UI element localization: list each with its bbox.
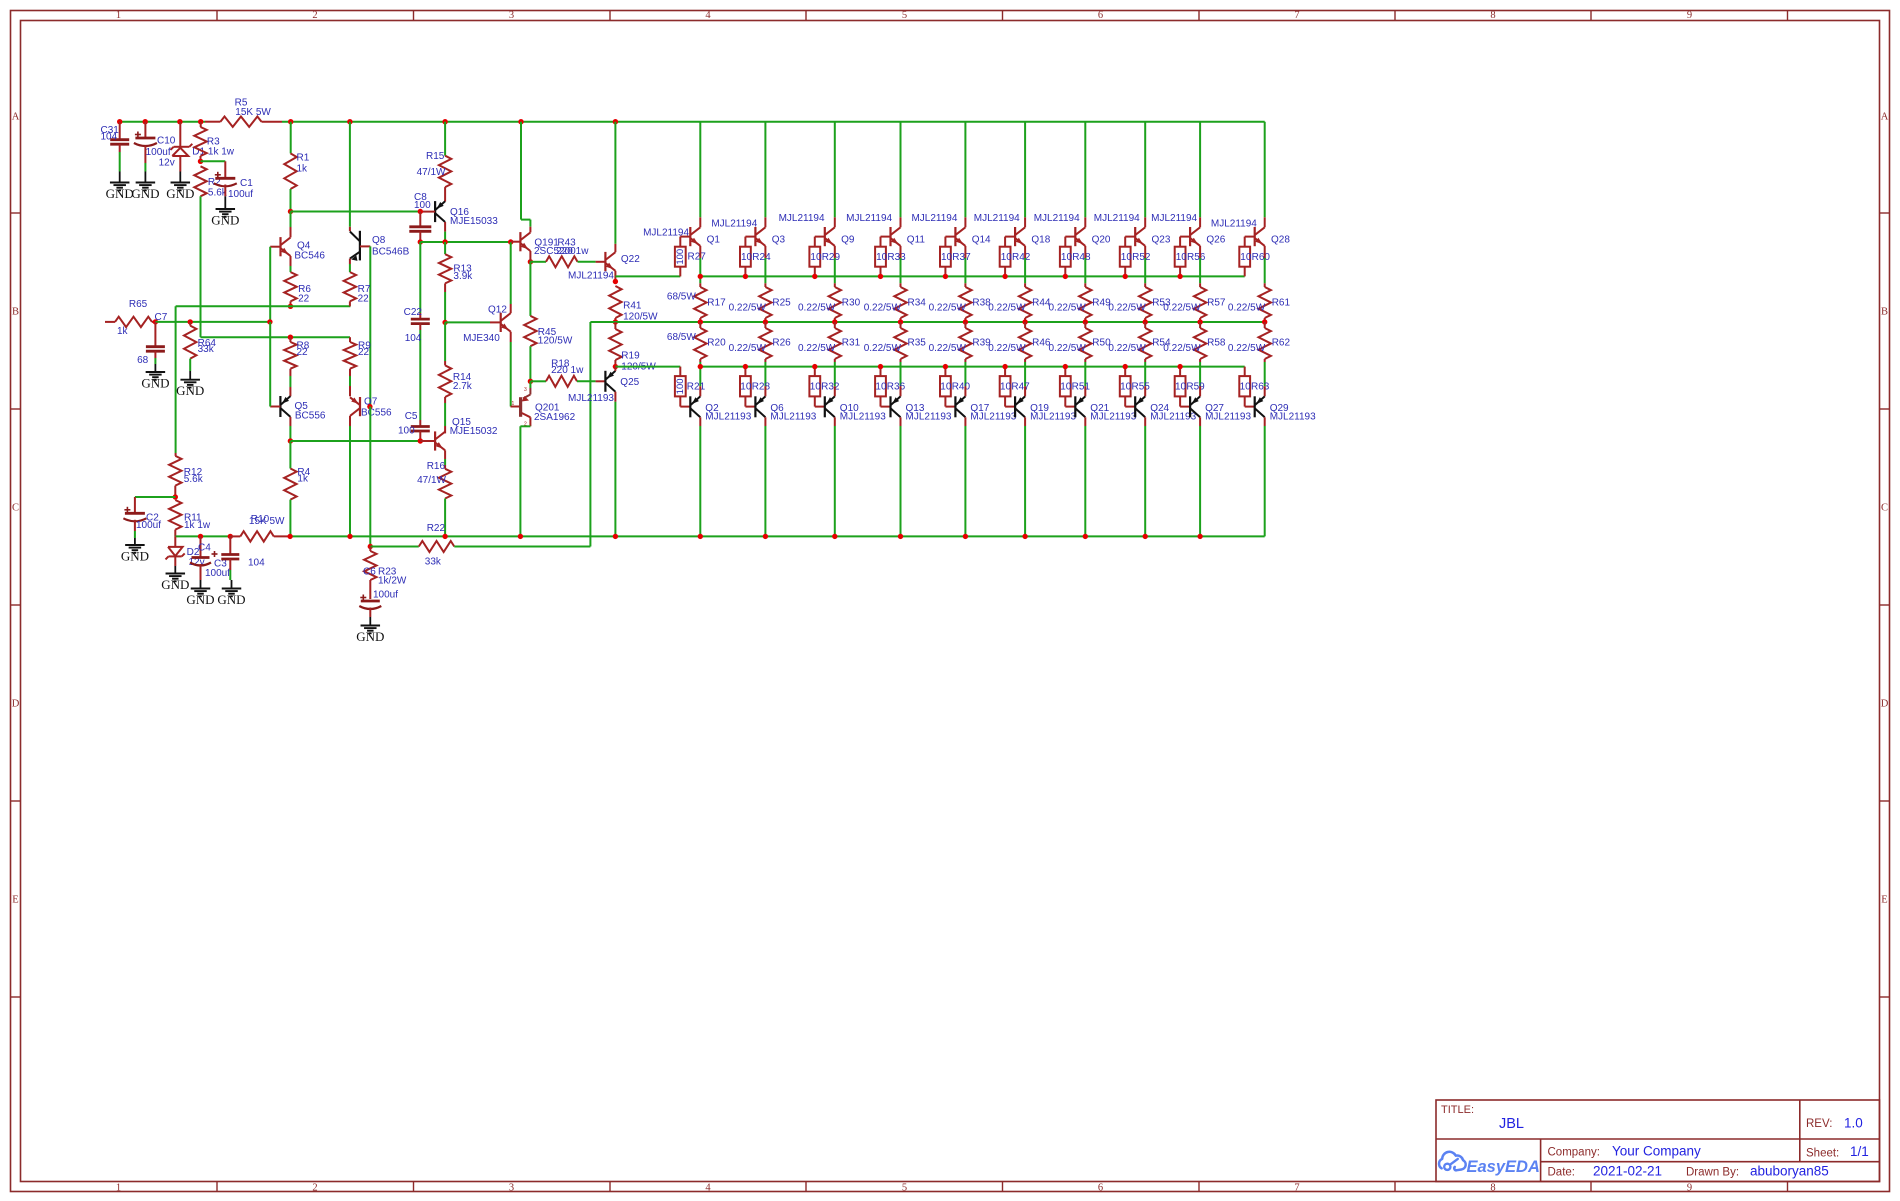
label R38 value — [929, 302, 967, 313]
svg-text:MJL21193: MJL21193 — [1270, 411, 1316, 422]
svg-text:Sheet:: Sheet: — [1806, 1148, 1839, 1160]
label R58 value — [1163, 343, 1201, 354]
svg-text:2.7k: 2.7k — [453, 381, 473, 392]
svg-text:Q18: Q18 — [1031, 235, 1050, 246]
svg-text:GND: GND — [217, 592, 245, 607]
svg-text:100: 100 — [675, 378, 686, 394]
ground GND C3 — [186, 580, 214, 607]
label R31 name — [842, 337, 861, 348]
ground GND C2 — [121, 538, 149, 564]
svg-text:100: 100 — [398, 425, 415, 436]
svg-text:100: 100 — [414, 200, 431, 211]
wire Q28 collector from top rail — [1264, 122, 1266, 218]
node R56 lead junction — [1177, 274, 1182, 279]
wire to C2 — [135, 497, 175, 513]
resistor R59 base Q27 — [1175, 367, 1205, 407]
svg-text:BC556: BC556 — [361, 408, 392, 419]
ground GND C1 — [211, 196, 239, 227]
svg-text:100uf: 100uf — [205, 568, 230, 579]
svg-text:R16: R16 — [427, 461, 446, 472]
label MJL21194 Q11 — [846, 213, 892, 224]
svg-text:Q11: Q11 — [907, 235, 926, 246]
wire Q22 collector — [614, 122, 616, 253]
wire Q22 emitter — [614, 271, 616, 282]
capacitor C1 — [214, 172, 253, 200]
svg-text:1: 1 — [116, 1183, 121, 1194]
resistor R26 — [759, 322, 771, 386]
label R20 value — [667, 332, 696, 343]
svg-text:R56: R56 — [1187, 252, 1206, 263]
wire Q19 collector to bottom rail — [1024, 417, 1026, 536]
capacitor C31 — [101, 122, 130, 172]
svg-text:0.22/5W: 0.22/5W — [798, 302, 836, 313]
label R38 name — [972, 297, 991, 308]
svg-text:1/1: 1/1 — [1850, 1144, 1869, 1159]
node R34 mid junction — [898, 319, 903, 324]
resistor R2 — [194, 166, 228, 337]
resistor R50 — [1079, 322, 1091, 386]
transistor Q16 MJE15033 — [435, 201, 498, 227]
svg-text:10: 10 — [741, 252, 753, 263]
svg-text:Company:: Company: — [1548, 1147, 1600, 1159]
capacitor C2 — [123, 507, 161, 538]
resistor R10 — [230, 514, 290, 542]
wire Q21 collector to bottom rail — [1084, 417, 1086, 536]
label R49 value — [1049, 302, 1087, 313]
transistor Q27 MJL21193 — [1190, 386, 1251, 422]
label R53 value — [1108, 302, 1146, 313]
svg-text:68/5W: 68/5W — [667, 292, 696, 303]
svg-text:GND: GND — [186, 592, 214, 607]
node R45 bottom R18 junction — [528, 379, 533, 384]
node R38 mid junction — [963, 319, 968, 324]
wire bottom left rail — [175, 535, 1264, 537]
label R26 name — [772, 337, 791, 348]
node Q24 bottom junction — [1143, 534, 1148, 539]
node Q2 emitter junction — [698, 364, 703, 369]
svg-text:6: 6 — [1098, 10, 1103, 21]
resistor R30 — [829, 283, 841, 322]
svg-text:R47: R47 — [1011, 382, 1030, 393]
resistor R53 — [1139, 283, 1151, 322]
svg-text:1k: 1k — [297, 473, 309, 484]
svg-text:Q25: Q25 — [620, 377, 639, 388]
svg-text:BC546: BC546 — [294, 251, 325, 262]
label R35 name — [908, 337, 927, 348]
label R46 name — [1032, 337, 1051, 348]
wire Q8 base down to Q7 — [360, 246, 370, 406]
svg-text:R15: R15 — [426, 151, 445, 162]
svg-text:MJL21194: MJL21194 — [711, 218, 757, 229]
resistor R32 base Q10 — [809, 367, 839, 407]
svg-text:0.22/5W: 0.22/5W — [929, 302, 967, 313]
svg-text:R26: R26 — [772, 337, 791, 348]
transistor Q23 MJL21194 — [1135, 217, 1171, 246]
label R44 name — [1032, 297, 1051, 308]
svg-text:100uf: 100uf — [136, 520, 161, 531]
resistor R63 base Q29 — [1239, 367, 1269, 407]
resistor R45 — [524, 262, 573, 382]
svg-text:0.22/5W: 0.22/5W — [1228, 343, 1266, 354]
svg-text:R42: R42 — [1012, 252, 1031, 263]
svg-text:R58: R58 — [1207, 337, 1226, 348]
node C5 bottom Q15 base junction — [418, 438, 423, 443]
label R34 name — [908, 297, 927, 308]
svg-text:E: E — [1881, 895, 1887, 906]
svg-text:Your Company: Your Company — [1612, 1144, 1701, 1159]
resistor R40 base Q17 — [940, 367, 970, 407]
svg-text:9: 9 — [1687, 10, 1692, 21]
label MJL21194 Q9 — [779, 213, 825, 224]
svg-text:68: 68 — [137, 355, 149, 366]
svg-text:TITLE:: TITLE: — [1441, 1104, 1474, 1116]
svg-text:GND: GND — [356, 629, 384, 644]
node R57 mid junction — [1197, 319, 1202, 324]
resistor R17 — [694, 283, 706, 322]
svg-text:0.22/5W: 0.22/5W — [988, 302, 1026, 313]
node R13 R14 Q12 base junction — [442, 320, 447, 325]
svg-text:0.22/5W: 0.22/5W — [1108, 302, 1146, 313]
svg-text:D: D — [1881, 699, 1889, 710]
svg-text:R29: R29 — [822, 252, 841, 263]
svg-text:GND: GND — [131, 186, 159, 201]
resistor R27 base Q1 — [675, 237, 706, 277]
svg-text:104: 104 — [101, 132, 118, 143]
wire Q20 emitter — [1084, 246, 1086, 283]
wire Q24 collector to bottom rail — [1144, 417, 1146, 536]
svg-text:R35: R35 — [908, 337, 927, 348]
svg-text:R41: R41 — [623, 301, 642, 312]
svg-text:10: 10 — [1000, 382, 1012, 393]
transistor Q4 BC546 — [281, 212, 326, 262]
resistor R3 — [194, 122, 235, 162]
label MJL21194 Q26 — [1151, 213, 1197, 224]
ground GND C7 — [141, 364, 169, 391]
label MJL21194 Q18 — [974, 213, 1020, 224]
wire Q4 collector to Q16 base — [291, 211, 421, 213]
transistor Q10 MJL21193 — [825, 386, 886, 422]
wire lower base rail segment A — [615, 366, 680, 368]
wire input node — [155, 321, 270, 323]
node Q2 bottom junction — [698, 534, 703, 539]
svg-text:MJE15033: MJE15033 — [450, 216, 498, 227]
label R30 value — [798, 302, 836, 313]
resistor R39 — [959, 322, 971, 386]
node R4 bottom junction — [287, 534, 292, 539]
svg-text:D: D — [12, 699, 20, 710]
svg-text:R61: R61 — [1272, 297, 1291, 308]
node Q7 base — [367, 404, 372, 409]
svg-text:A: A — [1881, 112, 1889, 123]
wire Q12 emitter down to Q201 base — [510, 332, 512, 407]
svg-text:0.22/5W: 0.22/5W — [1049, 343, 1087, 354]
transistor Q2 MJL21193 — [690, 386, 751, 422]
svg-text:R28: R28 — [752, 382, 771, 393]
node Q25 collector bottom junction — [613, 534, 618, 539]
svg-text:1.0: 1.0 — [1844, 1116, 1863, 1131]
svg-text:C6: C6 — [363, 567, 376, 578]
resistor R43 — [530, 256, 605, 267]
wire Q18 emitter — [1024, 246, 1026, 283]
label R53 name — [1152, 297, 1171, 308]
label R31 value — [798, 343, 836, 354]
transistor Q21 MJL21193 — [1075, 386, 1136, 422]
wire upper base rail segment A — [615, 275, 680, 277]
svg-text:R36: R36 — [887, 382, 906, 393]
svg-text:MJL21193: MJL21193 — [906, 411, 952, 422]
resistor R14 — [439, 322, 473, 433]
svg-text:220 1w: 220 1w — [551, 365, 584, 376]
node R48 lead junction — [1063, 274, 1068, 279]
label R17 name — [707, 297, 726, 308]
node R19 bottom Q25 emitter junction — [613, 364, 618, 369]
svg-text:MJE15032: MJE15032 — [450, 426, 498, 437]
wire R2 tail to R8 R9 — [201, 336, 351, 338]
svg-text:R40: R40 — [952, 382, 971, 393]
svg-text:Q3: Q3 — [772, 235, 786, 246]
wire Q1 collector from top rail — [699, 122, 701, 218]
resistor R18 — [530, 358, 605, 386]
resistor R35 — [894, 322, 906, 386]
resistor R36 base Q13 — [875, 367, 905, 407]
svg-text:68/5W: 68/5W — [667, 332, 696, 343]
transistor Q29 MJL21193 — [1255, 386, 1316, 422]
svg-text:0.22/5W: 0.22/5W — [1163, 343, 1201, 354]
svg-text:R48: R48 — [1072, 252, 1091, 263]
label MJL21194 Q23 — [1094, 213, 1140, 224]
svg-text:104: 104 — [405, 333, 422, 344]
wire Q3 emitter — [764, 246, 766, 283]
svg-text:10: 10 — [740, 382, 752, 393]
wire Q10 collector to bottom rail — [834, 417, 836, 536]
diode D2 zener — [166, 536, 205, 568]
svg-text:0.22/5W: 0.22/5W — [864, 302, 902, 313]
node R52 lead junction — [1123, 274, 1128, 279]
svg-text:10: 10 — [876, 252, 888, 263]
svg-text:1k 1w: 1k 1w — [184, 520, 211, 531]
wire feedback line R6/R7 to R12 — [176, 306, 351, 453]
node R40 lead junction — [943, 364, 948, 369]
resistor R13 — [439, 242, 473, 322]
wire Q16 base — [420, 211, 435, 213]
svg-text:R21: R21 — [687, 382, 706, 393]
svg-text:0.22/5W: 0.22/5W — [729, 343, 767, 354]
node R55 lead junction — [1123, 364, 1128, 369]
wire Q5 collector line to Q15 base — [290, 440, 420, 442]
diode D1 12v zener — [171, 122, 206, 172]
node R47 lead junction — [1002, 364, 1007, 369]
transistor Q3 MJL21194 — [755, 217, 785, 246]
svg-text:1k 1w: 1k 1w — [208, 146, 235, 157]
svg-text:R25: R25 — [772, 297, 791, 308]
wire Q2 collector to bottom rail — [699, 417, 701, 536]
svg-text:10: 10 — [1240, 382, 1252, 393]
resistor R62 — [1259, 322, 1271, 386]
capacitor C3 — [190, 536, 230, 580]
wire output mid rail — [590, 322, 1264, 547]
svg-text:MJL21194: MJL21194 — [1211, 218, 1257, 229]
title block texts — [1441, 1104, 1869, 1179]
wire Q8 collector from rail — [349, 122, 351, 227]
transistor Q201 2SA1962 — [511, 381, 576, 536]
resistor R57 — [1194, 283, 1206, 322]
svg-text:R55: R55 — [1132, 382, 1151, 393]
svg-text:0.22/5W: 0.22/5W — [988, 343, 1026, 354]
title block frame — [1436, 1100, 1880, 1182]
svg-text:MJL21194: MJL21194 — [1094, 213, 1140, 224]
node Q191 emitter junction — [528, 259, 533, 264]
node Q19 bottom junction — [1022, 534, 1027, 539]
resistor R21 base Q2 — [675, 367, 706, 407]
svg-text:BC546B: BC546B — [372, 247, 410, 258]
svg-text:GND: GND — [161, 577, 189, 592]
label R25 value — [729, 302, 767, 313]
ground GND C6 — [356, 617, 384, 644]
svg-text:R57: R57 — [1207, 297, 1226, 308]
resistor R5 — [205, 98, 282, 127]
svg-text:R1: R1 — [297, 153, 310, 164]
resistor R24 base Q3 — [740, 237, 771, 277]
label R46 value — [988, 343, 1026, 354]
node R29 lead junction — [812, 274, 817, 279]
node R16 bottom R22 junction — [442, 534, 447, 539]
svg-text:9: 9 — [1687, 1183, 1692, 1194]
svg-text:Q8: Q8 — [372, 235, 386, 246]
resistor R4 — [284, 441, 310, 536]
transistor Q7 BC556 — [350, 376, 392, 419]
wire Q27 collector to bottom rail — [1199, 417, 1201, 536]
resistor R22 33k — [370, 523, 590, 568]
label R50 name — [1092, 337, 1111, 348]
transistor Q17 MJL21193 — [955, 386, 1016, 422]
svg-text:R20: R20 — [707, 337, 726, 348]
svg-text:C5: C5 — [405, 411, 418, 422]
resistor R38 — [959, 283, 971, 322]
svg-text:7: 7 — [1294, 10, 1299, 21]
node R30 mid junction — [832, 319, 837, 324]
label R20 name — [707, 337, 726, 348]
node Q6 bottom junction — [763, 534, 768, 539]
ground GND D2 — [161, 566, 189, 592]
label R39 name — [972, 337, 991, 348]
svg-text:33k: 33k — [198, 344, 215, 355]
node Q201 collector bottom junction — [518, 534, 523, 539]
svg-text:100uf: 100uf — [373, 590, 398, 601]
svg-text:1: 1 — [116, 10, 121, 21]
svg-text:10: 10 — [1240, 252, 1252, 263]
svg-text:MJL21194: MJL21194 — [911, 213, 957, 224]
label R54 name — [1152, 337, 1171, 348]
node R53 mid junction — [1143, 319, 1148, 324]
node R42 lead junction — [1002, 274, 1007, 279]
svg-text:15K 5W: 15K 5W — [235, 107, 271, 118]
wire R3 bottom to C1 — [201, 161, 226, 178]
svg-text:R60: R60 — [1252, 252, 1271, 263]
svg-text:C22: C22 — [404, 307, 423, 318]
wire Q4 base — [270, 247, 280, 322]
resistor R42 base Q18 — [1000, 237, 1031, 277]
svg-text:2SA1962: 2SA1962 — [534, 412, 576, 423]
resistor R61 — [1259, 283, 1271, 322]
svg-text:15K 5W: 15K 5W — [249, 516, 285, 527]
resistor R51 base Q21 — [1060, 367, 1090, 407]
svg-text:5: 5 — [902, 1183, 907, 1194]
svg-text:R34: R34 — [908, 297, 927, 308]
svg-text:5: 5 — [902, 10, 907, 21]
capacitor C6 — [359, 590, 398, 618]
label R17 value — [667, 292, 696, 303]
label R25 name — [772, 297, 791, 308]
svg-text:C1: C1 — [240, 178, 253, 189]
svg-text:R52: R52 — [1132, 252, 1151, 263]
svg-text:R63: R63 — [1251, 382, 1270, 393]
svg-text:0.22/5W: 0.22/5W — [798, 343, 836, 354]
svg-text:Q28: Q28 — [1271, 235, 1290, 246]
svg-text:R24: R24 — [752, 252, 771, 263]
node Q4 collector junction — [288, 209, 293, 214]
resistor R49 — [1079, 283, 1091, 322]
wire Q4 emitter to R6 — [290, 256, 292, 272]
svg-text:47/1W: 47/1W — [417, 167, 446, 178]
svg-text:R32: R32 — [821, 382, 840, 393]
svg-text:MJL21194: MJL21194 — [974, 213, 1020, 224]
wire Q3 collector from top rail — [764, 122, 766, 218]
svg-text:GND: GND — [121, 549, 149, 564]
svg-text:MJL21193: MJL21193 — [970, 411, 1016, 422]
svg-text:10: 10 — [1060, 382, 1072, 393]
svg-text:MJL21193: MJL21193 — [568, 393, 614, 404]
svg-text:R27: R27 — [688, 252, 707, 263]
node R17 mid junction — [698, 319, 703, 324]
resistor R12 — [169, 453, 204, 497]
svg-text:8: 8 — [1490, 1183, 1495, 1194]
svg-text:5.6k: 5.6k — [184, 474, 204, 485]
resistor R46 — [1019, 322, 1031, 386]
resistor R48 base Q20 — [1060, 237, 1091, 277]
svg-text:8: 8 — [1490, 10, 1495, 21]
resistor R44 — [1019, 283, 1031, 322]
svg-text:0.22/5W: 0.22/5W — [929, 343, 967, 354]
wire Q191 base — [511, 241, 521, 243]
wire Q11 collector from top rail — [900, 122, 902, 218]
label R58 name — [1207, 337, 1226, 348]
transistor Q6 MJL21193 — [755, 386, 816, 422]
wire V+ top rail — [120, 121, 1265, 123]
wire Q8 Q7 base column to R22 — [369, 407, 371, 547]
node Q12 collector line junction — [508, 239, 513, 244]
svg-text:C4: C4 — [198, 543, 211, 554]
svg-text:0.22/5W: 0.22/5W — [864, 343, 902, 354]
svg-text:7: 7 — [1294, 1183, 1299, 1194]
wire Q18 collector from top rail — [1024, 122, 1026, 218]
wire Q9 emitter — [834, 246, 836, 283]
node R6 bottom feedback junction — [288, 304, 293, 309]
node R64 top — [188, 319, 193, 324]
node Q27 bottom junction — [1197, 534, 1202, 539]
wire Q29 collector to bottom rail — [1264, 417, 1266, 536]
label R61 value — [1228, 302, 1266, 313]
svg-text:12v: 12v — [159, 157, 175, 168]
resistor R15 — [417, 122, 452, 202]
resistor R19 — [609, 322, 656, 373]
node R33 lead junction — [878, 274, 883, 279]
svg-text:MJL21194: MJL21194 — [779, 213, 825, 224]
wire Q6 collector to bottom rail — [764, 417, 766, 536]
capacitor C7 input — [137, 312, 168, 366]
resistor R33 base Q11 — [875, 237, 906, 277]
transistor Q11 MJL21194 — [891, 217, 926, 246]
svg-text:R30: R30 — [842, 297, 861, 308]
